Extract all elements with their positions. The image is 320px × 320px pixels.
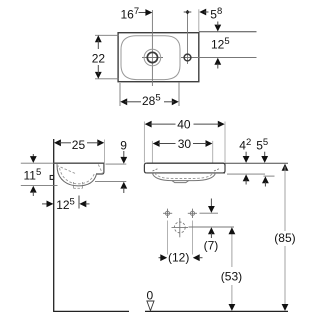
dimension 12.5 top extension line (top edge to right)	[199, 31, 257, 33]
front view: floor line	[145, 310, 288, 312]
dimension 28.5 right arrow	[172, 98, 179, 105]
dimension 12.5 side right-pointing arrow	[47, 201, 54, 208]
side view: hidden overflow dashed line	[57, 165, 77, 174]
dimension (7) up arrow shaft	[210, 233, 212, 238]
dimension (12) right-pointing arrow	[160, 254, 167, 261]
floor zero reference triangle	[147, 301, 154, 311]
dimension 5.8 diamond marker	[185, 10, 189, 14]
dimension 22 top extension line	[95, 34, 119, 36]
dimension (85) line upper part	[284, 167, 286, 232]
front view: right fixing hole cross vertical	[192, 209, 194, 218]
dimension 11.5 up arrow shaft	[32, 191, 34, 196]
dimension (85) up arrow	[282, 164, 289, 171]
dimension (12) left extension line	[167, 221, 169, 255]
dimension (7) down arrow shaft	[210, 199, 212, 208]
dimension (85) down arrow	[282, 304, 289, 311]
dimension 22 down arrow	[95, 72, 102, 79]
dimension 40 right arrow	[218, 121, 225, 128]
side view: hidden front wall dashed line	[98, 165, 102, 174]
dimension 9 bottom extension line	[95, 180, 126, 182]
side view: floor line	[53, 310, 129, 312]
svg-text:58: 58	[210, 6, 222, 22]
front view: left fixing hidden tick	[153, 168, 159, 171]
front view: left fixing hole cross vertical	[167, 209, 169, 218]
side view: drain centerline stub	[78, 196, 80, 209]
front view: left fixing hole cross horizontal	[163, 212, 172, 214]
side view: hidden inner bowl dashed curve	[60, 168, 95, 184]
dimension 22 up arrow	[95, 35, 102, 42]
front view: right edge	[223, 165, 225, 173]
dimension 11.5 down arrow shaft	[32, 154, 34, 159]
dimension 4.2 up arrow	[243, 174, 250, 181]
svg-text:125: 125	[211, 36, 230, 52]
dimension 9 top extension line	[106, 163, 127, 165]
svg-text:42: 42	[239, 137, 251, 153]
front view: top edge	[146, 163, 225, 165]
top view: drain outer circle	[144, 49, 161, 66]
dimension 28.5 left arrow	[120, 98, 127, 105]
dimension 40 right extension line	[224, 122, 226, 163]
side view: bowl outer curve	[57, 164, 97, 186]
dimension (53) line upper part	[231, 230, 233, 267]
front view: left edge	[144, 163, 146, 173]
front view: drain cross horizontal	[172, 226, 189, 228]
dimension 25 line left part	[59, 142, 71, 144]
svg-text:40: 40	[177, 117, 191, 131]
front view: drain cross vertical	[179, 218, 181, 237]
svg-text:125: 125	[56, 197, 75, 213]
dimension 5.5 down arrow shaft	[264, 152, 266, 158]
front view: drain dashed circle	[174, 222, 185, 233]
dimension 16.7 leader line	[139, 12, 147, 14]
dimension 9 up arrow	[120, 182, 127, 189]
dimension (53) down arrow	[229, 304, 236, 311]
dimension (53) line lower part	[231, 285, 233, 308]
svg-text:9: 9	[120, 138, 127, 152]
top view: tap hole circle	[184, 54, 191, 61]
dimension 12.5 down arrow shaft	[217, 22, 219, 27]
dimension (7) drain extension line	[189, 226, 235, 228]
dimension 22 line lower part	[97, 65, 99, 74]
dimension 12.5 side left arrow shaft	[85, 203, 89, 205]
side view: hidden drain dashed box	[74, 182, 83, 188]
dimension 4.2 up arrow shaft	[245, 180, 247, 184]
side view: wall line	[53, 139, 55, 311]
dimension 16.7 arrow right	[145, 9, 152, 16]
svg-text:22: 22	[92, 51, 106, 65]
dimension 4.2 down arrow	[243, 156, 250, 163]
dimension (12) right extension line	[192, 221, 194, 255]
svg-text:(53): (53)	[221, 269, 242, 283]
dimension (7) top extension line	[200, 212, 219, 214]
svg-text:0: 0	[147, 289, 154, 303]
dimension 5.8 leader line	[204, 11, 209, 13]
dimension 28.5 left extension line	[119, 83, 121, 106]
dimension 9 lower shaft	[123, 187, 125, 193]
svg-text:(7): (7)	[204, 238, 219, 252]
dimension 25 line right part	[87, 142, 99, 144]
dimension 12.5 side right arrow shaft	[42, 203, 49, 205]
svg-text:(85): (85)	[274, 231, 295, 245]
dimension 25 right extension line	[104, 140, 106, 164]
dimension 12.5 down arrow	[214, 25, 221, 32]
front view: right fixing hole circle	[190, 211, 194, 215]
svg-text:285: 285	[142, 93, 161, 109]
dimension 11.5 up arrow	[30, 186, 37, 193]
svg-text:(12): (12)	[168, 250, 189, 264]
svg-text:25: 25	[72, 138, 86, 152]
dimension 12.5 up arrow	[214, 58, 221, 65]
dimension 5.5 down arrow	[261, 156, 268, 163]
dimension 25 left arrow	[54, 139, 61, 146]
dimension 5.5 up arrow shaft	[264, 182, 266, 186]
dimension 30 left arrow	[153, 140, 160, 147]
top view: drain horizontal crosshair	[142, 57, 163, 59]
dimension (7) up arrow	[208, 227, 215, 234]
dimension 9 down arrow	[120, 157, 127, 164]
dimension 22 bottom extension line	[95, 78, 119, 80]
front view: right fixing hidden tick	[214, 168, 220, 171]
top view: drain inner circle	[147, 52, 157, 62]
dimension 5.8 diamond stub line	[184, 11, 192, 13]
dimension 5.8 arrow left	[199, 9, 206, 16]
dimension 40 line left part	[150, 123, 176, 125]
top view: drain vertical centerline	[151, 10, 153, 86]
dimension (12) left-pointing arrow shaft	[199, 257, 203, 259]
dimension 5.8 extension line (right edge up)	[198, 9, 200, 31]
dimension 11.5 bottom extension line	[21, 184, 58, 186]
front view: right fixing hole cross horizontal	[188, 212, 197, 214]
dimension 11.5 down arrow	[30, 156, 37, 163]
dimension 40 left arrow	[145, 121, 152, 128]
dimension 4.2 bottom extension line	[227, 173, 265, 175]
dimension 22 line upper part	[97, 40, 99, 49]
svg-text:167: 167	[121, 6, 140, 22]
dimension 30 right arrow	[206, 140, 213, 147]
dimension (7) down arrow	[208, 206, 215, 213]
side view: rim top line	[54, 162, 105, 164]
dimension 30 line right part	[193, 143, 207, 145]
front view: hidden inner bowl dashed	[155, 173, 213, 179]
dimension (85) line lower part	[284, 246, 286, 308]
dimension 5.5 up arrow	[262, 176, 269, 183]
dimension 28.5 right extension line	[178, 82, 180, 106]
dimension 30 right extension line	[212, 141, 214, 163]
front view: bowl silhouette	[152, 173, 215, 181]
front view: drain boss	[172, 181, 189, 183]
front view: top edge extension right	[225, 162, 288, 164]
dimension 25 right arrow	[97, 139, 104, 146]
top view: tap hole horizontal centerline / extension to 12.5 dim	[181, 57, 257, 59]
dimension 30 line left part	[158, 143, 176, 145]
dimension 30 left extension line	[151, 141, 153, 163]
dimension 4.2 down arrow shaft	[245, 152, 247, 158]
dimension 5.5 bottom extension line	[264, 175, 275, 177]
dimension (12) right-pointing arrow shaft	[159, 257, 164, 259]
top view: basin inner bowl outline	[121, 36, 180, 80]
dimension (53) up arrow	[229, 227, 236, 234]
dimension 9 upper shaft	[123, 151, 125, 158]
side view: front edge and apron	[96, 163, 104, 174]
dimension 11.5 top extension line	[21, 162, 54, 164]
front view: left fixing hole circle	[165, 211, 169, 215]
dimension (12) left-pointing arrow	[193, 254, 200, 261]
dimension 12.5 up arrow shaft	[217, 64, 219, 69]
dimension 12.5 side left-pointing arrow	[79, 201, 86, 208]
svg-text:115: 115	[24, 167, 42, 183]
dimension 28.5 line right part	[164, 101, 174, 103]
top view: tap hole vertical centerline	[187, 14, 189, 64]
front view: slab bottom edge with rounded right corner	[146, 172, 225, 174]
dimension 28.5 line left part	[125, 101, 141, 103]
svg-text:30: 30	[178, 137, 192, 151]
svg-text:55: 55	[256, 137, 268, 153]
side view: wall bracket	[50, 176, 54, 180]
top view: ceramic outer rectangle	[118, 33, 199, 82]
dimension 40 left extension line	[143, 122, 145, 163]
dimension 40 line right part	[194, 123, 220, 125]
